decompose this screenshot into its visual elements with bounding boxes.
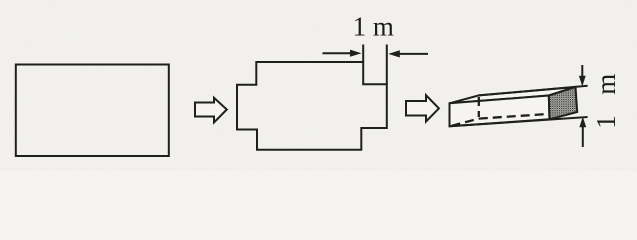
slab: front face [450,96,550,127]
arrowhead of slab bottom arrow (up) [579,117,586,128]
cross-shaped outline [237,62,387,150]
paper background [0,0,637,171]
hidden edge: back-bottom (dashed) [479,114,550,119]
arrowhead of right 1 m arrow [388,50,400,57]
hidden edge: back-left vertical (dashed) [478,97,480,117]
hidden edge: bottom-left depth (dashed) [452,119,479,126]
slab: shaded end face [549,87,577,119]
arrowhead of left 1 m arrow [350,50,362,57]
rectangle (plan of original sheet) [16,65,169,157]
svg-text:1 m: 1 m [353,12,394,42]
dimension arrow left (points right) [323,52,353,54]
block arrow 1 [195,98,227,123]
right dimension: bottom arrow line [582,126,584,147]
dimension arrow right (points left) [398,53,428,55]
slab: top face [450,87,576,103]
arrowhead of slab top arrow (down) [579,76,586,87]
right dimension: top arrow line [581,65,583,78]
block arrow 2 [406,95,439,121]
slab front-bottom edge extended to dimension [450,117,588,126]
extension line left of 1 m gap [362,45,364,63]
slab back-top edge extended to dimension [479,86,588,96]
extension line right of 1 m gap [386,45,388,85]
